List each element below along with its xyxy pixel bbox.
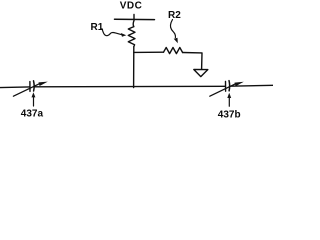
wire R1 bottom to ground rail bbox=[133, 47, 135, 88]
wire bottom rail middle segment bbox=[34, 85, 225, 88]
wire bottom rail right segment bbox=[230, 84, 273, 87]
capacitor 437a bbox=[13, 81, 47, 96]
ground bbox=[194, 70, 208, 77]
VDC supply rail bar bbox=[115, 18, 155, 20]
svg-text:R2: R2 bbox=[168, 10, 181, 21]
wire VDC stub bbox=[132, 15, 135, 27]
svg-text:437b: 437b bbox=[218, 109, 241, 120]
resistor R1 bbox=[128, 27, 135, 47]
wire junction to R2 bbox=[134, 51, 164, 53]
pointer arrow for 437a bbox=[32, 92, 36, 106]
svg-text:437a: 437a bbox=[21, 109, 44, 120]
pointer arrow for R1 bbox=[102, 29, 122, 36]
resistor R2 bbox=[164, 48, 183, 54]
svg-text:VDC: VDC bbox=[120, 0, 143, 11]
pointer arrow for 437b bbox=[227, 93, 231, 106]
capacitor 437b bbox=[210, 81, 244, 97]
pointer arrow for R2 bbox=[170, 20, 175, 38]
wire R2 to ground bbox=[183, 53, 202, 70]
wire bottom rail left segment bbox=[0, 86, 29, 89]
svg-text:R1: R1 bbox=[91, 22, 104, 33]
